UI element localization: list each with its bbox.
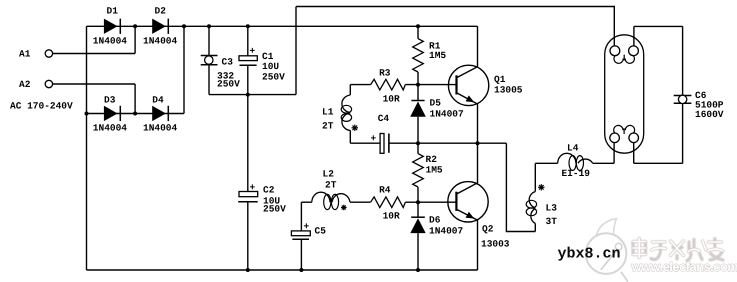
svg-text:1N4004: 1N4004 [93, 123, 128, 134]
node dots [85, 24, 480, 272]
phase dot L2 [341, 205, 347, 211]
svg-text:13003: 13003 [481, 239, 510, 250]
inductor L1 [322, 95, 352, 132]
svg-text:1N4004: 1N4004 [143, 123, 178, 134]
diode D2 [143, 6, 178, 47]
capacitor C5 [291, 221, 326, 240]
lamp filament top squiggle [614, 55, 634, 64]
svg-text:+: + [250, 46, 256, 57]
transistor Q1 [448, 65, 522, 105]
resistor R1 [413, 39, 447, 72]
inductor L3 [526, 192, 557, 228]
svg-text:+: + [371, 133, 377, 144]
node D1-D2 junction [133, 24, 137, 28]
svg-text:1N4004: 1N4004 [143, 36, 178, 47]
svg-text:C4: C4 [378, 113, 390, 124]
svg-text:D3: D3 [104, 95, 116, 106]
capacitor C4 [371, 113, 390, 153]
svg-text:www.elecfans.com: www.elecfans.com [631, 259, 737, 274]
wire Q2 emitter riser [477, 220, 479, 270]
capacitor C1 [239, 46, 285, 83]
capacitor C3 [201, 56, 240, 90]
lamp filament bottom-right [629, 133, 639, 143]
wire C5 bottom [300, 239, 302, 270]
wire D6 leads [417, 202, 419, 270]
node D3-D4 junction [133, 112, 137, 116]
diode D3 [93, 95, 128, 134]
svg-text:2T: 2T [325, 180, 337, 191]
wire top lamp rail [296, 7, 614, 46]
node C5 bottom [299, 268, 303, 272]
svg-text:A2: A2 [19, 79, 31, 90]
wire A1 lead [53, 53, 136, 55]
wire C6 top riser [682, 26, 684, 95]
watermark logo circle [586, 219, 628, 282]
wire emitter rail [389, 142, 507, 144]
node Q1 base [416, 83, 420, 87]
inductor L2 [312, 169, 350, 210]
lamp filament bottom-left [610, 133, 620, 143]
svg-text:D5: D5 [430, 98, 442, 109]
svg-text:L4: L4 [567, 143, 579, 154]
terminal A2 [45, 80, 52, 87]
svg-text:C3: C3 [222, 57, 234, 68]
wire left bus [86, 26, 88, 270]
diode D6 [410, 214, 463, 236]
lamp filament top-right [629, 46, 639, 56]
inductor L4 [558, 143, 593, 180]
wire Q1 emitter riser [477, 104, 479, 143]
wire Q2 collector riser [477, 143, 479, 183]
node Q1 emitter rail left [416, 141, 420, 145]
svg-text:250V: 250V [262, 71, 285, 82]
node Q2 base [416, 200, 420, 204]
diode D4 [143, 95, 178, 134]
wire A2 riser [134, 84, 136, 114]
diode D5 [410, 98, 464, 120]
wire C4 left lead [350, 142, 380, 144]
svg-text:R3: R3 [379, 68, 391, 79]
svg-text:13005: 13005 [494, 84, 523, 95]
wire D5 leads [417, 85, 419, 144]
phase dot L1 [352, 125, 358, 131]
wire C3 top [208, 26, 210, 55]
wire L3 to L4 [535, 162, 557, 164]
wire L1 top riser [349, 85, 351, 95]
wire R2 leads [417, 143, 419, 202]
svg-text:D1: D1 [107, 6, 119, 17]
phase dot L3 [538, 184, 544, 190]
node C1 top [246, 24, 250, 28]
svg-text:10R: 10R [383, 94, 400, 105]
resistor R4 [371, 185, 406, 222]
wire C1 top [247, 26, 249, 56]
node D3 anode [85, 112, 89, 116]
resistor R3 [371, 68, 406, 105]
wire L3 bottom riser [534, 224, 536, 232]
svg-text:D4: D4 [152, 95, 164, 106]
wire L3 top riser [534, 163, 536, 191]
wire upper base row [350, 84, 456, 86]
node C3 top [207, 24, 211, 28]
svg-text:1N4004: 1N4004 [93, 36, 128, 47]
svg-text:D6: D6 [429, 214, 441, 225]
wire lamp top to C6 [634, 25, 683, 27]
svg-text:R2: R2 [426, 154, 438, 165]
node C2 bottom [246, 268, 250, 272]
svg-text:2T: 2T [322, 121, 334, 132]
wire C3 bottom [208, 65, 210, 95]
node R1 top [416, 24, 420, 28]
wire D4 riser [183, 26, 185, 113]
node D4 riser top [182, 24, 186, 28]
lamp filament top-left [610, 46, 620, 56]
svg-text:EI-19: EI-19 [562, 168, 591, 179]
capacitor C2 [238, 182, 286, 215]
svg-text:1N4007: 1N4007 [429, 225, 464, 236]
wire L4 to lamp [593, 162, 614, 164]
wire lamp BL pin [613, 143, 615, 164]
svg-text:L3: L3 [546, 203, 558, 214]
lamp filament bottom squiggle [614, 125, 635, 134]
wire midpoint horizontal [209, 94, 296, 96]
terminal A1 [45, 50, 52, 57]
wire C6 bottom riser [682, 103, 684, 163]
svg-text:C5: C5 [315, 226, 327, 237]
svg-text:AC 170-240V: AC 170-240V [10, 101, 73, 112]
wire D3 row [87, 113, 185, 115]
wire C2 bottom [247, 202, 249, 270]
svg-text:R4: R4 [379, 185, 391, 196]
svg-text:A1: A1 [19, 49, 31, 60]
svg-text:ybx8.cn: ybx8.cn [558, 246, 621, 263]
svg-text:1M5: 1M5 [429, 50, 446, 61]
svg-text:C2: C2 [263, 184, 275, 195]
wire C1 to C2 [247, 65, 249, 191]
svg-text:250V: 250V [217, 79, 240, 90]
wire lower base row [350, 201, 456, 203]
transistor Q2 [448, 182, 510, 250]
svg-text:L2: L2 [323, 169, 335, 180]
wire C5 top [300, 202, 302, 231]
wire lamp BR pin [633, 143, 635, 164]
diode D1 [93, 6, 128, 47]
svg-text:1N4007: 1N4007 [430, 109, 465, 120]
lamp tube [605, 35, 644, 153]
wire A1 riser [134, 26, 136, 53]
svg-text:+: + [304, 221, 310, 232]
watermark chinese characters [633, 239, 723, 261]
svg-text:D2: D2 [155, 6, 167, 17]
wire lamp TR pin [633, 26, 635, 46]
wire Q1 collector riser [477, 26, 479, 67]
svg-text:Q2: Q2 [482, 224, 494, 235]
svg-text:Q1: Q1 [494, 74, 506, 85]
svg-text:10U: 10U [262, 61, 279, 72]
node Q1 emitter Q2 collector [476, 141, 480, 145]
wire lamp bottom to C6 [634, 162, 683, 164]
wire midpoint riser [295, 7, 297, 95]
node D6 bottom [416, 268, 420, 272]
svg-text:L1: L1 [322, 107, 334, 118]
wire R1 leads [417, 26, 419, 85]
wire L3 feed [506, 143, 535, 231]
resistor R2 [413, 154, 443, 187]
svg-text:250V: 250V [263, 204, 286, 215]
wire L2 left lead [301, 201, 311, 203]
capacitor C6 [674, 90, 724, 120]
wire L1 bottom riser [349, 131, 351, 144]
node capacitor midpoint [246, 93, 250, 97]
svg-text:10R: 10R [383, 211, 400, 222]
svg-text:1M5: 1M5 [426, 165, 443, 176]
svg-text:3T: 3T [546, 216, 558, 227]
wire bottom rail [87, 269, 478, 271]
wire A2 lead [53, 83, 136, 85]
svg-text:1600V: 1600V [695, 109, 724, 120]
wire main top rail [87, 25, 478, 27]
